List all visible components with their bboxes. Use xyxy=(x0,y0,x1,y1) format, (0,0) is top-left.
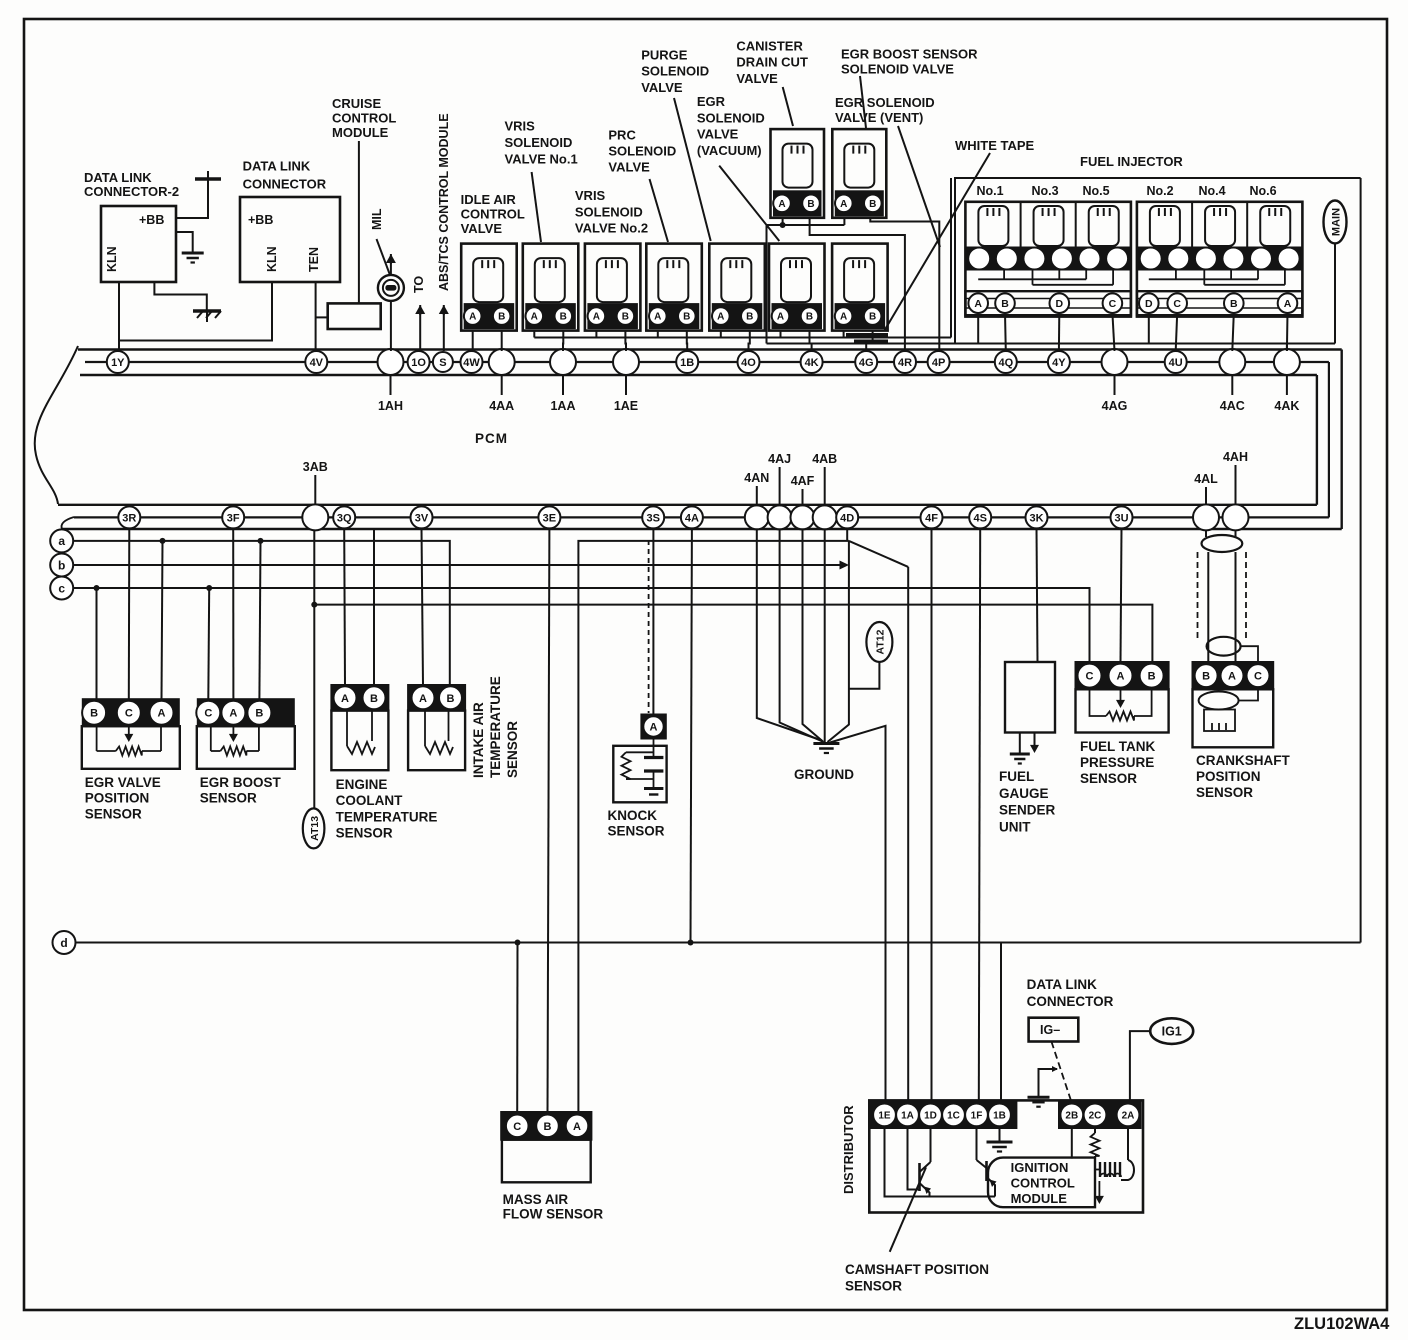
svg-text:3S: 3S xyxy=(646,512,659,524)
svg-text:PURGE: PURGE xyxy=(641,48,688,63)
svg-text:D: D xyxy=(1145,298,1153,310)
label idle air control valve xyxy=(461,192,525,236)
svg-text:MIL: MIL xyxy=(370,208,384,230)
leader canister xyxy=(783,87,793,126)
wire MAIN to pin 4AK xyxy=(1287,244,1335,352)
camshaft position sensor symbol Q1 xyxy=(908,1128,932,1197)
pin label 4AJ xyxy=(768,452,791,505)
svg-text:No.3: No.3 xyxy=(1031,184,1058,198)
wire +BB to power tap xyxy=(176,179,208,218)
wire b-line xyxy=(73,561,849,570)
idle air control valve xyxy=(461,244,517,331)
wire 4S to distributor 1F xyxy=(979,528,980,1101)
wire pin to ground 3 xyxy=(803,528,824,742)
wire to ground (DLC-2 right) xyxy=(176,232,193,252)
svg-text:WHITE TAPE: WHITE TAPE xyxy=(955,138,1035,153)
pin label 4AB xyxy=(812,452,837,505)
svg-text:No.4: No.4 xyxy=(1198,184,1225,198)
PCM pin pin (bottom row x=756.8) xyxy=(745,505,769,529)
svg-text:4Q: 4Q xyxy=(998,357,1013,369)
wire 4A to d-line xyxy=(688,528,694,945)
wire EGR solenoid valve (vent) B to PCM xyxy=(866,331,872,351)
label EGR boost sensor xyxy=(200,775,282,806)
pin label 3AB xyxy=(303,460,328,505)
PCM pin pin (top row x=1114.5) xyxy=(1102,349,1128,375)
svg-text:FUEL: FUEL xyxy=(999,769,1034,784)
svg-text:D: D xyxy=(1056,298,1064,310)
svg-text:3U: 3U xyxy=(1114,512,1128,524)
svg-text:4F: 4F xyxy=(925,512,938,524)
svg-text:VALVE: VALVE xyxy=(641,80,683,95)
wire injector B No.1 to pin 4Q xyxy=(1004,313,1007,351)
svg-text:+BB: +BB xyxy=(248,213,273,227)
PCM pin 4K (top row x=811.6) xyxy=(801,351,823,373)
ground (DLC-2 right) xyxy=(182,253,204,263)
svg-text:d: d xyxy=(60,936,67,950)
svg-text:3R: 3R xyxy=(122,512,136,524)
PCM pin 4U (top row x=1175.7) xyxy=(1165,351,1187,373)
engine coolant temperature sensor xyxy=(331,685,388,770)
svg-text:1F: 1F xyxy=(971,1111,983,1122)
svg-text:AT12: AT12 xyxy=(875,629,887,654)
wire 4F to distributor 1D xyxy=(931,528,933,1101)
svg-text:B: B xyxy=(683,312,690,323)
distributor connector strip 2 xyxy=(1059,1102,1141,1128)
wire canister A / EGR-boost-valve A to feed riser xyxy=(767,218,845,344)
label ground xyxy=(794,767,854,782)
wire injector C No.5 to pin 4AG xyxy=(1112,313,1114,351)
svg-text:TEMPERATURE: TEMPERATURE xyxy=(336,809,438,824)
white tape marker xyxy=(846,335,888,341)
AT13 oval xyxy=(303,808,325,848)
injector internal feed lines group1 xyxy=(978,270,1113,285)
PCM pin pin (top row x=563) xyxy=(550,349,576,375)
VRIS solenoid valve No.1 xyxy=(523,244,579,331)
svg-text:SENSOR: SENSOR xyxy=(200,791,257,806)
svg-text:B: B xyxy=(1230,298,1238,310)
PCM pin 4A (bottom row x=691.9) xyxy=(681,506,703,528)
svg-text:CONTROL: CONTROL xyxy=(1011,1176,1075,1191)
svg-text:(VACUUM): (VACUUM) xyxy=(697,143,762,158)
PCM pin 4Y (top row x=1058.9) xyxy=(1048,351,1070,373)
arrow TO to pin 1O xyxy=(415,305,425,351)
svg-text:1A: 1A xyxy=(901,1111,914,1122)
svg-text:MASS AIR: MASS AIR xyxy=(503,1192,569,1207)
leader MIL xyxy=(377,239,391,275)
svg-text:4D: 4D xyxy=(840,512,854,524)
wire 3U to FTP A xyxy=(1121,528,1122,662)
resistor at 2C xyxy=(1091,1128,1100,1163)
EGR boost sensor xyxy=(196,699,294,769)
PCM label xyxy=(475,431,508,446)
IG- connector box xyxy=(1029,1018,1079,1042)
wire injector B No.4 to pin 4AC xyxy=(1232,313,1234,351)
svg-text:A: A xyxy=(593,312,600,323)
wire VRIS solenoid valve No.2 A to feed bus xyxy=(595,331,597,338)
svg-text:GAUGE: GAUGE xyxy=(999,786,1049,801)
svg-text:DATA LINK: DATA LINK xyxy=(1027,977,1097,992)
svg-text:EGR: EGR xyxy=(697,94,726,109)
svg-text:EGR BOOST: EGR BOOST xyxy=(200,775,282,790)
svg-text:VALVE (VENT): VALVE (VENT) xyxy=(835,110,923,125)
pin label 4AL xyxy=(1194,472,1218,505)
svg-text:DRAIN CUT: DRAIN CUT xyxy=(736,55,808,70)
wire EGR solenoid valve (vacuum) A to feed bus xyxy=(780,331,782,338)
svg-text:1D: 1D xyxy=(924,1111,937,1122)
svg-text:No.2: No.2 xyxy=(1146,184,1173,198)
wire a-line left segment xyxy=(73,541,450,685)
svg-text:A: A xyxy=(717,312,724,323)
label white tape xyxy=(955,138,1035,153)
svg-text:A: A xyxy=(229,708,237,720)
svg-text:4W: 4W xyxy=(463,357,480,369)
fuel injector group 1-3-5 xyxy=(965,184,1131,317)
svg-text:KNOCK: KNOCK xyxy=(608,808,658,823)
svg-text:COOLANT: COOLANT xyxy=(336,793,403,808)
svg-text:A: A xyxy=(573,1121,581,1133)
wire EGR solenoid valve (vacuum) B to PCM xyxy=(810,331,812,351)
svg-text:KLN: KLN xyxy=(105,246,119,272)
svg-text:CRANKSHAFT: CRANKSHAFT xyxy=(1196,753,1290,768)
knock sensor xyxy=(613,740,666,803)
wire 3S to knock sensor (shielded) xyxy=(649,528,654,713)
wire DLC-2 KLN to pin 1Y xyxy=(118,282,120,351)
label EGR solenoid valve (vacuum) xyxy=(697,94,765,158)
wire 3F to EGR boost A xyxy=(232,528,234,699)
PCM pin 4G (top row x=866.2) xyxy=(855,351,877,373)
PCM pin 1O (top row x=418.6) xyxy=(408,351,430,373)
EGR solenoid valve (vacuum) xyxy=(769,244,825,331)
wire a to EGR boost B xyxy=(258,538,264,699)
svg-text:A: A xyxy=(840,199,847,210)
injector internal feed lines group2 xyxy=(1149,270,1285,285)
svg-text:EGR SOLENOID: EGR SOLENOID xyxy=(835,95,935,110)
svg-text:SENSOR: SENSOR xyxy=(85,806,142,821)
wire IACV A to pin 4W xyxy=(472,331,474,351)
svg-text:4AG: 4AG xyxy=(1102,399,1128,413)
wire 3K to fuel gauge sender xyxy=(1037,528,1038,662)
label knock sensor xyxy=(608,808,665,839)
svg-text:TEN: TEN xyxy=(307,247,321,272)
svg-text:+BB: +BB xyxy=(139,213,164,227)
pin label 4AH xyxy=(1223,450,1248,505)
PCM pin 4D (bottom row x=847.2) xyxy=(836,506,858,528)
svg-text:IG–: IG– xyxy=(1040,1023,1060,1037)
label distributor xyxy=(841,1105,856,1194)
svg-text:CONNECTOR: CONNECTOR xyxy=(243,177,327,192)
fuel gauge ground xyxy=(1010,733,1030,764)
svg-text:4AB: 4AB xyxy=(812,452,837,466)
CKP shielded pair xyxy=(1198,530,1259,662)
distributor internal ground (1B) xyxy=(987,1128,1013,1152)
svg-text:C: C xyxy=(1109,298,1117,310)
wire a to EGR valve position A xyxy=(160,538,166,699)
PCM lower connector band xyxy=(58,505,1342,529)
PCM pin 4P (top row x=938.6) xyxy=(928,351,950,373)
svg-text:1AH: 1AH xyxy=(378,399,403,413)
leader white tape xyxy=(885,153,990,330)
wire EGR solenoid valve (vent) A to feed bus xyxy=(843,331,845,338)
svg-text:4AA: 4AA xyxy=(489,399,514,413)
PCM upper connector band xyxy=(78,350,1342,530)
PCM pin 4R (top row x=905) xyxy=(894,351,916,373)
label fuel gauge sender unit xyxy=(999,769,1056,834)
svg-text:A: A xyxy=(341,693,349,705)
wire DLC-2 to lower ground xyxy=(154,282,206,310)
svg-text:DATA LINK: DATA LINK xyxy=(84,170,152,185)
wire c to EGR valve position B xyxy=(94,585,100,699)
wire 3E to MAF B xyxy=(548,528,550,1112)
svg-text:INTAKE AIR: INTAKE AIR xyxy=(471,702,486,778)
PCM pin pin (top row x=1286.9) xyxy=(1274,349,1300,375)
wire VRIS solenoid valve No.1 A to feed bus xyxy=(533,331,535,338)
node d xyxy=(53,931,76,954)
PCM pin 3Q (bottom row x=344.2) xyxy=(333,506,355,528)
svg-text:2C: 2C xyxy=(1089,1111,1102,1122)
pin label 4AA xyxy=(489,376,514,414)
svg-text:4P: 4P xyxy=(932,357,945,369)
svg-text:A: A xyxy=(778,199,785,210)
wire 3Q to ECT A xyxy=(343,528,346,685)
wire a-line to distributor 1A xyxy=(907,567,909,1102)
wire VRIS solenoid valve No.2 B to PCM xyxy=(624,331,627,351)
wire d-line xyxy=(76,942,1361,944)
svg-text:1AA: 1AA xyxy=(550,399,575,413)
right-edge long wire (enclosure to d-line) xyxy=(1360,178,1362,943)
PCM pin pin (top row x=390.5) xyxy=(378,349,404,375)
svg-text:CRUISE: CRUISE xyxy=(332,96,381,111)
svg-text:C: C xyxy=(513,1121,521,1133)
ignition coil xyxy=(1095,1162,1121,1177)
crankshaft position sensor xyxy=(1193,662,1274,747)
drawing number ZLU102WA4 xyxy=(1294,1315,1390,1333)
svg-text:C: C xyxy=(125,708,133,720)
wire IACV B to pin 4AA xyxy=(501,331,503,351)
wire injector A No.6 to pin 4AK xyxy=(1286,313,1289,351)
svg-text:C: C xyxy=(204,708,212,720)
svg-text:A: A xyxy=(777,312,784,323)
svg-text:4G: 4G xyxy=(859,357,874,369)
wire 4D junction to ground xyxy=(828,528,849,742)
intake air temperature sensor xyxy=(408,685,465,770)
svg-text:EGR BOOST SENSOR: EGR BOOST SENSOR xyxy=(841,47,978,62)
svg-text:A: A xyxy=(419,693,427,705)
svg-text:SENSOR: SENSOR xyxy=(608,824,665,839)
svg-text:GROUND: GROUND xyxy=(794,767,854,782)
wire purge solenoid valve B to PCM xyxy=(749,331,750,351)
svg-text:SOLENOID: SOLENOID xyxy=(641,64,709,79)
arrow ABS/TCS to pin S xyxy=(439,305,449,351)
PCM pin 3S (bottom row x=653.2) xyxy=(642,506,664,528)
wire c-line xyxy=(73,588,1089,664)
svg-text:VRIS: VRIS xyxy=(575,188,606,203)
svg-text:4V: 4V xyxy=(310,357,324,369)
svg-text:C: C xyxy=(1086,671,1094,683)
wire 3R to EGR valve position C xyxy=(128,528,131,699)
PCM pin 4F (bottom row x=931.5) xyxy=(921,506,943,528)
fuel tank pressure sensor xyxy=(1076,662,1169,733)
wire injector D No.3 to pin 4Y xyxy=(1058,313,1060,351)
svg-text:3E: 3E xyxy=(543,512,556,524)
svg-text:4A: 4A xyxy=(685,512,699,524)
leader cruise control module xyxy=(358,141,360,303)
distributor box xyxy=(869,1100,1143,1212)
leader EGR vacuum xyxy=(719,166,779,241)
svg-text:3Q: 3Q xyxy=(337,512,352,524)
PCM pin 3U (bottom row x=1121.5) xyxy=(1111,506,1133,528)
wire pin to ground 4 xyxy=(824,528,826,743)
svg-text:ZLU102WA4: ZLU102WA4 xyxy=(1294,1315,1390,1333)
svg-text:A: A xyxy=(1284,298,1292,310)
svg-text:SOLENOID: SOLENOID xyxy=(608,144,676,159)
svg-text:A: A xyxy=(158,708,166,720)
label cruise control module xyxy=(332,96,396,140)
PCM pin 3K (bottom row x=1036.5) xyxy=(1026,506,1048,528)
svg-text:EGR VALVE: EGR VALVE xyxy=(85,775,161,790)
label TO xyxy=(412,276,426,293)
svg-text:4AK: 4AK xyxy=(1274,399,1299,413)
chassis ground (below DLC-2) xyxy=(193,311,221,322)
AT12 oval xyxy=(866,622,892,662)
svg-text:VALVE: VALVE xyxy=(461,221,503,236)
svg-text:No.5: No.5 xyxy=(1082,184,1109,198)
fuel gauge sender unit xyxy=(1005,662,1055,733)
svg-text:FUEL INJECTOR: FUEL INJECTOR xyxy=(1080,154,1183,169)
PCM pin S (top row x=442.9) xyxy=(433,352,453,372)
leader EGR vent xyxy=(898,126,940,247)
PCM pin 4W (top row x=471.5) xyxy=(461,351,483,373)
svg-text:4U: 4U xyxy=(1169,357,1183,369)
data link connector-2 U1 xyxy=(101,206,176,282)
leader camshaft position sensor xyxy=(890,1167,926,1251)
svg-text:B: B xyxy=(746,312,753,323)
leader PRC xyxy=(650,179,669,242)
svg-text:PCM: PCM xyxy=(475,431,508,446)
wire 2B into module xyxy=(1071,1128,1073,1159)
wire a-line right segment xyxy=(578,541,849,1112)
svg-text:B: B xyxy=(560,312,567,323)
wire injector C No.2 to pin 4U xyxy=(1176,313,1178,351)
PCM pin 1B (top row x=687.2) xyxy=(676,351,698,373)
canister drain cut valve body xyxy=(771,129,825,218)
svg-text:VALVE No.2: VALVE No.2 xyxy=(575,221,648,236)
svg-text:CONTROL: CONTROL xyxy=(332,111,396,126)
PCM pin pin (bottom row x=802.5) xyxy=(791,505,815,529)
MAIN relay xyxy=(1324,201,1347,244)
node a xyxy=(50,529,73,552)
label VRIS solenoid valve No.1 xyxy=(505,119,578,167)
wire band to ECT B xyxy=(373,529,375,685)
svg-text:A: A xyxy=(1117,671,1125,683)
svg-text:CONNECTOR-2: CONNECTOR-2 xyxy=(84,184,179,199)
svg-text:SENSOR: SENSOR xyxy=(336,826,393,841)
svg-text:4AF: 4AF xyxy=(791,474,815,488)
svg-text:1O: 1O xyxy=(411,357,426,369)
PRC solenoid valve xyxy=(646,244,702,331)
fuel injector group 2-4-6 xyxy=(1137,184,1303,317)
transistor at 1F xyxy=(977,1128,997,1197)
wire PRC solenoid valve B to PCM xyxy=(686,331,688,351)
A-feed riser join xyxy=(767,343,1336,345)
leader VRIS No.1 xyxy=(532,172,541,242)
link 2C to 2A xyxy=(1106,1114,1116,1116)
svg-text:B: B xyxy=(806,312,813,323)
svg-text:2A: 2A xyxy=(1122,1111,1135,1122)
svg-text:VALVE No.1: VALVE No.1 xyxy=(505,151,578,166)
svg-text:PRC: PRC xyxy=(608,128,636,143)
label VRIS solenoid valve No.2 xyxy=(575,188,648,236)
svg-text:B: B xyxy=(1001,298,1009,310)
PCM pin 3R (bottom row x=129.3) xyxy=(118,506,140,528)
svg-text:B: B xyxy=(370,693,378,705)
PCM pin pin (top row x=626) xyxy=(613,349,639,375)
wire 3AB pin to AT13 xyxy=(313,530,315,808)
leader purge xyxy=(674,98,711,241)
svg-text:MAIN: MAIN xyxy=(1331,208,1343,236)
PCM pin pin (top row x=501.7) xyxy=(489,349,515,375)
svg-text:SOLENOID: SOLENOID xyxy=(697,110,765,125)
svg-text:CONNECTOR: CONNECTOR xyxy=(1027,994,1114,1009)
svg-text:A: A xyxy=(650,721,658,733)
svg-text:FUEL TANK: FUEL TANK xyxy=(1080,739,1155,754)
module internal down arrow xyxy=(1095,1181,1104,1204)
svg-text:b: b xyxy=(58,558,65,572)
svg-text:B: B xyxy=(1202,671,1210,683)
label EGR solenoid valve (vent) xyxy=(835,95,935,125)
label data link connector-2 xyxy=(84,170,179,199)
node b xyxy=(50,554,73,577)
label EGR boost sensor solenoid valve xyxy=(841,47,978,77)
PCM pin 4Q (top row x=1005.8) xyxy=(995,351,1017,373)
svg-text:A: A xyxy=(840,312,847,323)
svg-text:3V: 3V xyxy=(415,512,429,524)
svg-text:VALVE: VALVE xyxy=(608,160,650,175)
svg-text:A: A xyxy=(654,312,661,323)
svg-text:2B: 2B xyxy=(1065,1111,1078,1122)
svg-text:3K: 3K xyxy=(1029,512,1043,524)
svg-text:B: B xyxy=(447,693,455,705)
svg-text:No.1: No.1 xyxy=(976,184,1003,198)
wire injector A(1-3-5) common feed xyxy=(977,313,979,344)
svg-text:B: B xyxy=(255,708,263,720)
svg-text:No.6: No.6 xyxy=(1249,184,1276,198)
PCM pin 4S (bottom row x=980.2) xyxy=(969,506,991,528)
svg-text:CAMSHAFT POSITION: CAMSHAFT POSITION xyxy=(845,1262,989,1277)
wire d-line to MAF C xyxy=(515,940,521,1113)
svg-text:1B: 1B xyxy=(680,357,694,369)
power arrow above MIL xyxy=(386,254,396,275)
fuel gauge arrow stub xyxy=(1030,733,1039,754)
IG1 oval xyxy=(1150,1018,1193,1044)
ground node xyxy=(813,744,839,754)
wire AT12 to ground wire xyxy=(849,662,880,689)
ground branch from IG- wire xyxy=(1028,1066,1059,1107)
wire DLC TEN to pin 4V xyxy=(315,282,317,351)
label engine coolant temperature sensor xyxy=(336,777,438,841)
solenoid A-feed bus xyxy=(534,337,951,339)
svg-text:IG1: IG1 xyxy=(1162,1025,1182,1039)
wire IG1 to 2A xyxy=(1130,1031,1150,1100)
label intake air temperature sensor xyxy=(471,676,520,778)
PCM pin 4O (top row x=748.5) xyxy=(738,351,760,373)
VRIS solenoid valve No.2 xyxy=(585,244,641,331)
EGR valve position sensor xyxy=(82,699,180,769)
svg-text:B: B xyxy=(498,312,505,323)
label camshaft position sensor xyxy=(845,1262,989,1294)
wire injector D(2-4-6) common feed xyxy=(1148,313,1150,344)
svg-text:S: S xyxy=(439,357,446,369)
PCM pin pin (bottom row x=779.6) xyxy=(768,505,792,529)
